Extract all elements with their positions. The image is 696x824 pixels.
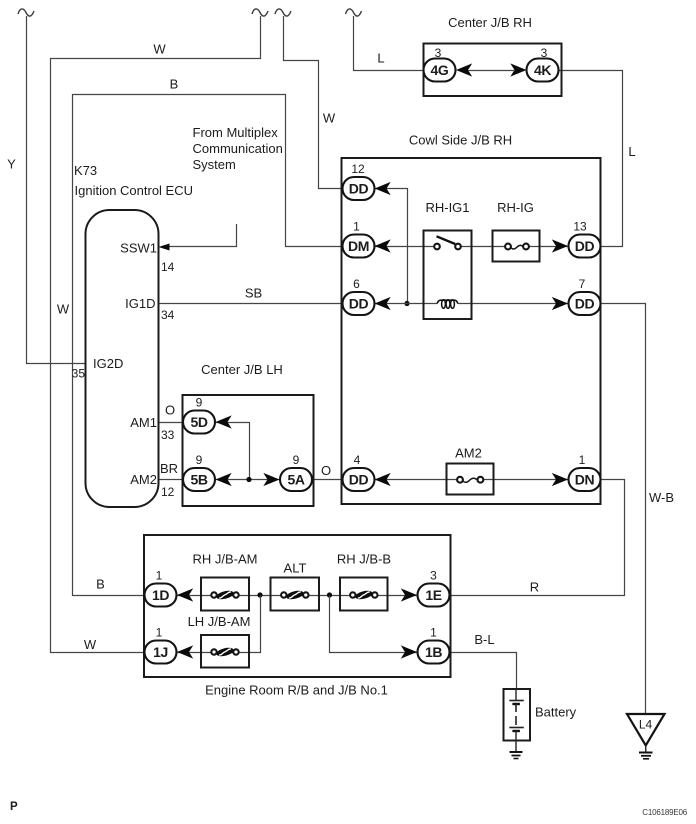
text From Multiplex Communication System — [193, 125, 283, 172]
wire DD4 to AM2 fuse to DN — [375, 479, 569, 481]
wire L from 4K to DD13 — [559, 71, 623, 247]
svg-text:From Multiplex: From Multiplex — [193, 125, 279, 140]
connector 4G pin 3 — [424, 46, 456, 82]
ECU pin SSW1 label and pin 14 — [120, 241, 175, 275]
ECU pin AM1 label and pin 33 — [130, 415, 174, 442]
svg-text:W: W — [153, 42, 166, 57]
svg-text:1: 1 — [430, 626, 437, 640]
svg-text:1B: 1B — [425, 644, 442, 660]
arrow into 4K — [510, 63, 526, 76]
ECU pin AM2 label and pin 12 — [130, 472, 174, 499]
svg-text:W: W — [84, 637, 97, 652]
svg-text:Ignition Control ECU: Ignition Control ECU — [75, 183, 194, 198]
wire W to 1J (squiggle top, down left side) — [51, 16, 261, 653]
svg-text:DD: DD — [575, 238, 595, 254]
arrow into 1E — [401, 588, 417, 601]
arrow into DD13 — [552, 239, 568, 252]
svg-text:35: 35 — [72, 367, 86, 381]
svg-text:BR: BR — [160, 461, 178, 476]
break symbol L wire top — [346, 9, 362, 16]
svg-text:3: 3 — [430, 569, 437, 583]
svg-text:DD: DD — [349, 181, 369, 197]
fuse RH-IG element — [505, 244, 529, 250]
svg-text:9: 9 — [196, 396, 203, 410]
svg-text:5D: 5D — [190, 414, 207, 430]
relay RH-IG1 box — [424, 200, 472, 319]
svg-text:RH J/B-B: RH J/B-B — [337, 552, 391, 567]
arrow into 1D — [177, 588, 193, 601]
svg-text:IG2D: IG2D — [93, 356, 123, 371]
ECU K73 Ignition Control ECU rounded body — [74, 163, 193, 507]
svg-text:System: System — [193, 157, 236, 172]
svg-text:1E: 1E — [425, 587, 441, 603]
svg-text:9: 9 — [196, 453, 203, 467]
svg-text:1: 1 — [353, 220, 360, 234]
ground connector L4 triangle — [627, 714, 665, 759]
fusible link RH J/B-AM — [193, 552, 258, 611]
wire BR from AM2 to 5B — [159, 479, 184, 481]
svg-text:B: B — [96, 577, 105, 592]
svg-text:14: 14 — [161, 260, 175, 274]
wire Y vertical+horizontal to IG2D — [27, 16, 87, 364]
wire engine room row1 1D to 1E — [177, 595, 418, 597]
junction dot after ALT — [327, 592, 332, 597]
connector DD pin 7 — [569, 277, 601, 315]
svg-text:DM: DM — [348, 238, 369, 254]
svg-text:W: W — [57, 302, 70, 317]
svg-text:Battery: Battery — [535, 705, 577, 720]
fusible link ALT — [271, 561, 320, 611]
svg-text:3: 3 — [435, 46, 442, 60]
svg-text:33: 33 — [161, 428, 175, 442]
svg-text:3: 3 — [541, 46, 548, 60]
wire B-L from 1B to battery — [450, 653, 517, 690]
junction dot 5B/5A row — [246, 477, 251, 482]
battery — [504, 689, 577, 752]
svg-text:K73: K73 — [74, 163, 97, 178]
svg-text:1J: 1J — [153, 644, 168, 660]
wire W-B from DD7 down to L4 — [601, 304, 646, 714]
svg-text:DD: DD — [349, 296, 369, 312]
wire from multiplex into SSW1 with arrowhead — [159, 224, 237, 251]
arrow into DD12 — [375, 182, 391, 195]
wire L from squiggle to 4G — [354, 16, 425, 71]
wire O from 5A to DD4 — [312, 479, 344, 481]
fusible link RH J/B-B — [337, 552, 391, 611]
svg-text:C106189E06: C106189E06 — [642, 808, 687, 817]
break symbol (squiggle) Y wire top — [18, 9, 34, 16]
svg-text:DD: DD — [349, 472, 369, 488]
svg-text:4G: 4G — [431, 62, 449, 78]
svg-text:9: 9 — [293, 453, 300, 467]
svg-text:SSW1: SSW1 — [120, 241, 157, 256]
svg-text:4K: 4K — [534, 62, 551, 78]
svg-text:RH-IG1: RH-IG1 — [425, 200, 469, 215]
wire RH-IG fuse to DD13 — [529, 246, 569, 248]
svg-text:L4: L4 — [639, 718, 653, 732]
wire 1J row to junction — [177, 596, 261, 653]
svg-text:O: O — [165, 403, 175, 418]
fuse AM2 box — [447, 446, 494, 495]
arrow into DD4 — [375, 473, 391, 486]
fuse RH-IG box — [493, 200, 540, 262]
wire SB from IG1D to DD6 — [159, 303, 344, 305]
svg-text:7: 7 — [579, 277, 586, 291]
fuse AM2 element — [457, 477, 483, 483]
box Center J/B LH — [183, 362, 314, 506]
svg-text:5B: 5B — [190, 472, 207, 488]
arrow into DD6 — [375, 297, 391, 310]
box Engine Room R/B and J/B No.1 — [144, 535, 451, 698]
wire W to DD12 — [284, 16, 344, 189]
svg-text:4: 4 — [354, 453, 361, 467]
svg-text:B: B — [170, 77, 179, 92]
arrow into DM — [375, 239, 391, 252]
junction dot after RH J/B-AM — [257, 592, 262, 597]
relay RH-IG1 switch contacts — [434, 236, 461, 249]
svg-text:1D: 1D — [152, 587, 169, 603]
svg-text:12: 12 — [161, 485, 175, 499]
svg-text:1: 1 — [156, 626, 163, 640]
svg-text:13: 13 — [573, 220, 587, 234]
arrow into DN — [552, 473, 568, 486]
wire 5D arrow to junction down to 5B row — [216, 423, 250, 480]
break symbol W wire top — [252, 9, 268, 16]
svg-text:W: W — [323, 111, 336, 126]
ECU pin IG2D label and pin 35 — [72, 356, 124, 381]
connector 4K pin 3 — [527, 46, 559, 82]
svg-text:Cowl Side J/B RH: Cowl Side J/B RH — [409, 133, 512, 148]
connector 5B pin 9 — [183, 453, 215, 491]
svg-text:L: L — [377, 51, 384, 66]
arrow into 4G — [456, 63, 472, 76]
svg-text:LH J/B-AM: LH J/B-AM — [188, 614, 251, 629]
svg-text:Y: Y — [7, 157, 16, 172]
connector DD pin 13 — [569, 220, 601, 258]
svg-text:1: 1 — [156, 569, 163, 583]
junction dot DD6 row — [404, 301, 409, 306]
svg-text:P: P — [10, 801, 18, 813]
box Center J/B RH — [424, 15, 562, 96]
wire DD12 arrow right then down to DD6 row — [375, 189, 408, 304]
svg-text:B-L: B-L — [474, 632, 494, 647]
svg-text:W-B: W-B — [649, 490, 674, 505]
fusible link LH J/B-AM — [188, 614, 251, 668]
wire relay switch to RH-IG fuse — [461, 246, 505, 248]
svg-text:IG1D: IG1D — [125, 296, 155, 311]
relay RH-IG1 coil — [437, 300, 458, 309]
svg-text:1: 1 — [579, 453, 586, 467]
connector 1E pin 3 — [418, 569, 450, 607]
wire R from DN down to 1E — [450, 480, 625, 596]
arrow into 5B — [216, 473, 232, 486]
svg-text:AM2: AM2 — [455, 446, 482, 461]
svg-text:12: 12 — [351, 162, 365, 176]
svg-text:RH-IG: RH-IG — [497, 200, 534, 215]
arrow into 1B — [401, 645, 417, 658]
svg-text:Center J/B LH: Center J/B LH — [201, 362, 283, 377]
svg-text:Engine Room R/B and J/B No.1: Engine Room R/B and J/B No.1 — [205, 683, 388, 698]
connector 1B pin 1 — [418, 626, 450, 664]
svg-text:DD: DD — [575, 296, 595, 312]
connector 5D pin 9 — [183, 396, 215, 434]
wire B net: DM to top, down to 1D — [73, 95, 344, 596]
svg-text:AM2: AM2 — [130, 472, 157, 487]
svg-text:5A: 5A — [287, 472, 304, 488]
arrow into DD7 — [552, 297, 568, 310]
box Cowl Side J/B RH — [342, 133, 601, 505]
ECU pin IG1D label and pin 34 — [125, 296, 175, 322]
svg-text:SB: SB — [245, 286, 262, 301]
connector DD pin 12 — [343, 162, 375, 200]
connector DM pin 1 — [343, 220, 375, 258]
wire DD6 to relay coil to DD7 — [375, 303, 569, 305]
connector DN pin 1 — [569, 453, 601, 491]
connector DD pin 6 — [343, 277, 375, 315]
wire between 4G/4K arrows — [468, 70, 515, 72]
svg-text:Center J/B RH: Center J/B RH — [448, 15, 532, 30]
svg-text:34: 34 — [161, 308, 175, 322]
wire junction down to 1B — [330, 596, 418, 653]
break symbol W2 wire top — [275, 9, 291, 16]
arrow into 5D — [216, 415, 232, 428]
svg-text:AM1: AM1 — [130, 415, 157, 430]
svg-text:ALT: ALT — [284, 561, 307, 576]
ground below battery — [510, 752, 523, 759]
connector 5A pin 9 — [280, 453, 312, 491]
svg-text:O: O — [321, 463, 331, 478]
connector DD pin 4 — [343, 453, 375, 491]
wire O from AM1 to 5D — [159, 422, 184, 424]
svg-text:DN: DN — [575, 472, 595, 488]
arrow into 1J — [177, 645, 193, 658]
svg-text:L: L — [628, 144, 635, 159]
arrow into 5A — [263, 473, 279, 486]
wire DM to relay switch — [375, 246, 435, 248]
svg-text:R: R — [530, 580, 539, 595]
wire 5B arrow to 5A — [216, 479, 281, 481]
connector 1J pin 1 — [145, 626, 177, 664]
connector 1D pin 1 — [145, 569, 177, 607]
svg-text:6: 6 — [353, 277, 360, 291]
svg-text:Communication: Communication — [193, 141, 283, 156]
svg-text:RH J/B-AM: RH J/B-AM — [193, 552, 258, 567]
